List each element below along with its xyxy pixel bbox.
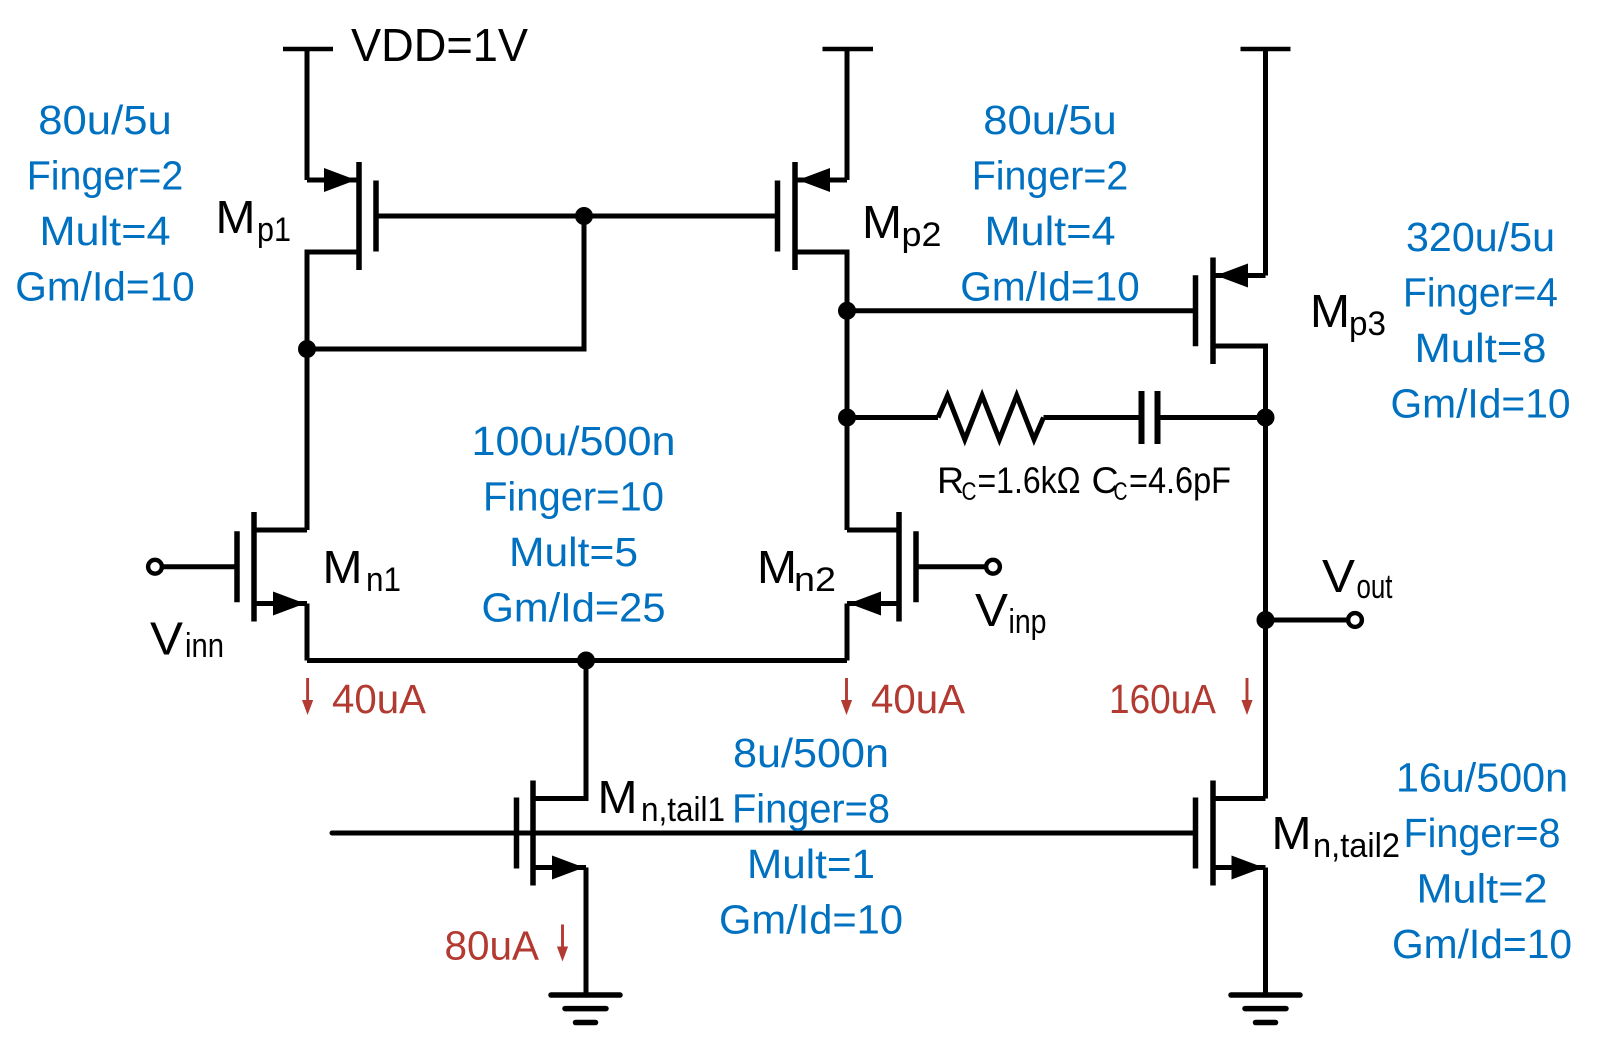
svg-text:=1.6kΩ: =1.6kΩ [978, 459, 1081, 501]
svg-text:V: V [975, 584, 1008, 636]
svg-text:Mult=4: Mult=4 [985, 208, 1116, 254]
svg-text:M: M [1310, 285, 1350, 337]
svg-text:V: V [150, 613, 183, 665]
svg-text:Mult=2: Mult=2 [1417, 866, 1548, 912]
svg-text:40uA: 40uA [332, 676, 426, 722]
svg-text:Mult=5: Mult=5 [509, 529, 638, 575]
svg-text:Finger=8: Finger=8 [1404, 810, 1561, 856]
svg-text:C: C [1114, 478, 1128, 506]
svg-text:320u/5u: 320u/5u [1406, 214, 1555, 260]
svg-text:VDD=1V: VDD=1V [351, 19, 528, 71]
svg-text:M: M [1272, 807, 1312, 859]
svg-text:M: M [598, 771, 638, 823]
svg-text:Gm/Id=10: Gm/Id=10 [960, 264, 1140, 310]
svg-text:Finger=2: Finger=2 [972, 153, 1129, 199]
svg-text:16u/500n: 16u/500n [1396, 755, 1568, 801]
svg-text:n2: n2 [794, 561, 836, 599]
svg-text:M: M [323, 541, 363, 593]
svg-text:Mult=1: Mult=1 [747, 841, 875, 887]
svg-text:Gm/Id=10: Gm/Id=10 [15, 264, 195, 310]
svg-text:40uA: 40uA [871, 676, 965, 722]
svg-text:p1: p1 [257, 211, 291, 249]
svg-text:80u/5u: 80u/5u [38, 97, 172, 143]
svg-text:Finger=8: Finger=8 [732, 786, 890, 832]
svg-text:Finger=2: Finger=2 [27, 153, 184, 199]
svg-text:Finger=4: Finger=4 [1403, 270, 1558, 316]
svg-text:p2: p2 [902, 216, 942, 254]
svg-text:p3: p3 [1349, 305, 1386, 343]
svg-text:inp: inp [1009, 603, 1047, 641]
svg-text:Gm/Id=25: Gm/Id=25 [482, 585, 666, 631]
svg-text:80u/5u: 80u/5u [983, 97, 1117, 143]
svg-text:8u/500n: 8u/500n [733, 730, 889, 776]
svg-text:100u/500n: 100u/500n [472, 418, 676, 464]
svg-text:80uA: 80uA [445, 923, 540, 969]
svg-text:Gm/Id=10: Gm/Id=10 [1391, 381, 1571, 427]
svg-text:V: V [1322, 550, 1355, 602]
svg-text:Mult=8: Mult=8 [1415, 325, 1547, 371]
svg-text:M: M [757, 541, 797, 593]
svg-text:M: M [862, 196, 902, 248]
svg-text:n,tail2: n,tail2 [1313, 827, 1400, 865]
svg-text:C: C [962, 478, 977, 506]
svg-text:=4.6pF: =4.6pF [1129, 459, 1231, 501]
svg-text:Finger=10: Finger=10 [483, 474, 664, 520]
svg-text:Gm/Id=10: Gm/Id=10 [1392, 921, 1572, 967]
svg-text:Gm/Id=10: Gm/Id=10 [719, 897, 903, 943]
svg-text:160uA: 160uA [1109, 676, 1216, 722]
svg-text:Mult=4: Mult=4 [40, 208, 171, 254]
svg-text:n,tail1: n,tail1 [641, 791, 725, 829]
svg-text:inn: inn [185, 627, 224, 665]
svg-text:R: R [937, 459, 964, 501]
svg-text:out: out [1357, 568, 1393, 606]
svg-text:n1: n1 [366, 561, 401, 599]
svg-text:M: M [216, 191, 256, 243]
